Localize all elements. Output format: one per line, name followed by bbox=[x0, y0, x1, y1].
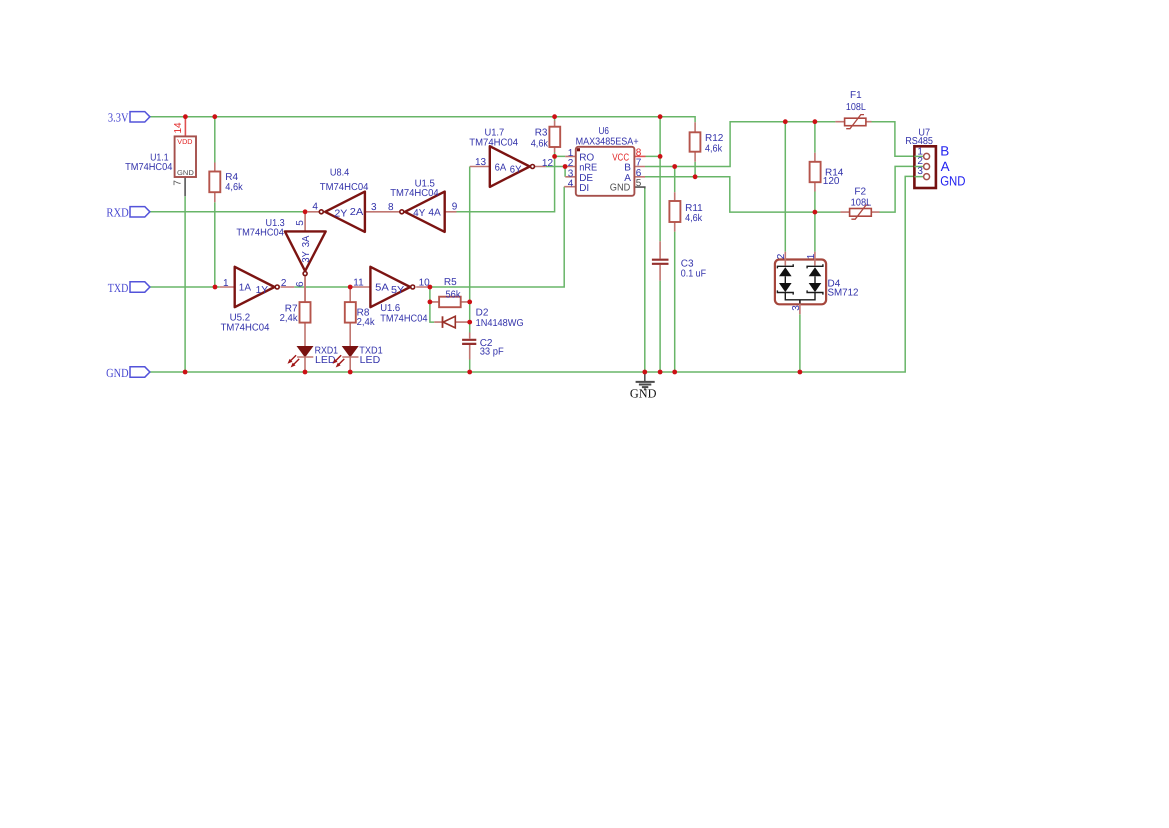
junction A/R14 bottom/D4 pin1 bbox=[813, 210, 818, 215]
wire D4 pin2 column bbox=[784, 122, 786, 252]
LED RXD1 bbox=[288, 346, 339, 372]
svg-text:4,6k: 4,6k bbox=[225, 182, 243, 193]
svg-text:13: 13 bbox=[475, 157, 487, 168]
svg-text:2,4k: 2,4k bbox=[280, 313, 299, 324]
svg-text:LED: LED bbox=[360, 355, 381, 366]
svg-text:5A: 5A bbox=[375, 283, 389, 294]
svg-text:F1: F1 bbox=[850, 90, 862, 101]
svg-text:7: 7 bbox=[173, 180, 184, 186]
svg-text:R3: R3 bbox=[535, 128, 548, 139]
junction GND/C2 bbox=[467, 370, 472, 375]
TVS diode array D4 SM712 bbox=[775, 252, 859, 314]
junction B/D4 pin2 bbox=[783, 119, 788, 124]
junction R5 right/pin13 column bbox=[467, 300, 472, 305]
svg-text:GND: GND bbox=[630, 387, 657, 401]
svg-text:56k: 56k bbox=[446, 290, 462, 301]
wire D4 pin1 column bbox=[814, 212, 816, 252]
junction TXD2/R8 bbox=[348, 285, 353, 290]
inverter U1.3 (points down) bbox=[236, 212, 325, 302]
wire R14 column bbox=[814, 122, 816, 212]
svg-text:2A: 2A bbox=[350, 207, 364, 218]
junction B/R11 bbox=[672, 164, 677, 169]
svg-text:LED: LED bbox=[315, 355, 336, 366]
junction 3.3V/U1.1 pin14 bbox=[183, 114, 188, 119]
capacitor C2 bbox=[462, 333, 504, 360]
wire net A: U6 pin6 to F2 to U7 pin2 bbox=[645, 166, 921, 212]
inverter U1.5 (mirrored, output left) bbox=[388, 178, 458, 232]
svg-text:5Y: 5Y bbox=[391, 285, 405, 296]
junction R5 left bbox=[428, 300, 433, 305]
svg-text:D2: D2 bbox=[476, 307, 489, 318]
svg-text:6Y: 6Y bbox=[510, 165, 522, 176]
svg-text:2,4k: 2,4k bbox=[357, 317, 376, 328]
input flag TXD bbox=[108, 281, 150, 295]
svg-text:MAX3485ESA+: MAX3485ESA+ bbox=[576, 137, 639, 148]
inverter U1.6 bbox=[352, 267, 430, 325]
wire RXD rail bbox=[150, 211, 305, 213]
input flag GND bbox=[106, 366, 150, 380]
junction GND/D4 pin3 bbox=[798, 370, 803, 375]
LED TXD1 bbox=[333, 346, 384, 372]
wire 3.3V rail bbox=[150, 117, 695, 123]
svg-text:9: 9 bbox=[452, 202, 458, 213]
wire net B: U6 pin7 to F1 to U7 pin1 bbox=[645, 122, 921, 167]
svg-text:4: 4 bbox=[568, 178, 574, 189]
svg-text:1: 1 bbox=[806, 253, 817, 259]
resistor R7 bbox=[280, 277, 311, 346]
fuse F1 108L bbox=[835, 90, 871, 129]
svg-text:TM74HC04: TM74HC04 bbox=[236, 228, 284, 239]
svg-text:4A: 4A bbox=[428, 208, 441, 219]
wire R5/D2 node down to C2 bbox=[469, 302, 471, 372]
wire GND rail to U7 pin3 bbox=[150, 176, 921, 372]
resistor R12 bbox=[690, 122, 724, 162]
ground symbol GND bbox=[630, 372, 657, 401]
junction GND/R11 bbox=[672, 370, 677, 375]
svg-text:R12: R12 bbox=[705, 133, 724, 144]
svg-text:5: 5 bbox=[295, 220, 306, 226]
inverter U1.7 bbox=[469, 128, 553, 187]
svg-text:12: 12 bbox=[542, 158, 554, 169]
svg-text:2: 2 bbox=[281, 278, 287, 289]
svg-text:3A: 3A bbox=[301, 235, 312, 247]
svg-text:4Y: 4Y bbox=[413, 208, 425, 219]
junction D2 anode/C2 bbox=[467, 320, 472, 325]
junction GND/RXD1 LED bbox=[303, 370, 308, 375]
svg-text:3: 3 bbox=[917, 166, 923, 177]
junction U1.6 out/DI/R5 bbox=[428, 285, 433, 290]
svg-text:F2: F2 bbox=[854, 186, 866, 197]
svg-text:3.3V: 3.3V bbox=[108, 110, 129, 124]
inverter U5.2 bbox=[220, 267, 294, 334]
svg-text:120: 120 bbox=[823, 176, 840, 187]
svg-text:DI: DI bbox=[579, 183, 589, 194]
power flag 3.3V bbox=[108, 110, 150, 124]
junction 3.3V/R3 bbox=[552, 114, 557, 119]
svg-text:5: 5 bbox=[636, 178, 642, 189]
junction GND/U1.1 pin7 bbox=[183, 370, 188, 375]
junction GND/U6 pin5 bbox=[642, 370, 647, 375]
resistor R4 bbox=[209, 163, 243, 203]
svg-text:3: 3 bbox=[791, 305, 802, 311]
wire U1.7 output to nRE junction, tie to DE bbox=[546, 167, 565, 177]
resistor R8 bbox=[345, 287, 376, 347]
junction GND/TXD1 LED bbox=[348, 370, 353, 375]
svg-text:14: 14 bbox=[173, 122, 184, 134]
input flag RXD bbox=[106, 206, 149, 220]
wire U5.2 output to U1.6 input bbox=[294, 286, 352, 288]
svg-text:B: B bbox=[940, 143, 949, 158]
svg-text:RS485: RS485 bbox=[905, 136, 933, 147]
resistor R3 bbox=[531, 121, 561, 153]
svg-text:TXD: TXD bbox=[108, 281, 129, 295]
resistor R14 bbox=[810, 153, 844, 192]
svg-text:TM74HC04: TM74HC04 bbox=[469, 138, 518, 149]
wire pin10 node down to R5 left and D2 cathode corner bbox=[430, 287, 434, 322]
wire R3 column bbox=[554, 117, 556, 157]
svg-text:TM74HC04: TM74HC04 bbox=[390, 188, 439, 199]
svg-text:1Y: 1Y bbox=[256, 285, 269, 296]
svg-text:0.1 uF: 0.1 uF bbox=[681, 268, 706, 279]
svg-text:4: 4 bbox=[312, 202, 318, 213]
IC U6 MAX3485ESA+ bbox=[564, 126, 645, 372]
fuse F2 108L bbox=[840, 186, 879, 219]
svg-text:TM74HC04: TM74HC04 bbox=[320, 182, 369, 193]
inverter U8.4 (mirrored, output left) bbox=[308, 168, 400, 232]
svg-text:1: 1 bbox=[223, 278, 229, 289]
svg-text:3: 3 bbox=[371, 202, 377, 213]
svg-text:TM74HC04: TM74HC04 bbox=[380, 313, 428, 324]
junction 3.3V/VCC column bbox=[658, 114, 663, 119]
svg-text:1A: 1A bbox=[239, 282, 252, 293]
svg-text:33 pF: 33 pF bbox=[480, 347, 504, 358]
svg-text:2Y: 2Y bbox=[334, 209, 347, 220]
junction RXD/U8.4 out/U1.3 in bbox=[303, 209, 308, 214]
svg-text:6A: 6A bbox=[495, 163, 507, 174]
svg-text:A: A bbox=[941, 159, 950, 174]
wire R4 column (3.3V to R4, R4 to TXD) bbox=[214, 117, 216, 287]
wire VCC node: pin8 link and 3.3V to C3 to GND column bbox=[646, 117, 661, 372]
svg-text:3Y: 3Y bbox=[301, 251, 312, 263]
wire U1.6 output to DI line up to U6 pin4 bbox=[430, 187, 564, 287]
svg-text:108L: 108L bbox=[846, 102, 866, 113]
svg-text:R5: R5 bbox=[444, 277, 457, 288]
svg-text:2: 2 bbox=[776, 253, 787, 259]
wire D4 pin3 to GND rail bbox=[799, 314, 801, 372]
svg-text:TM74HC04: TM74HC04 bbox=[221, 323, 270, 334]
wire U1.5 pin9 to R3 bottom to U6 RO bbox=[456, 156, 565, 211]
junction GND/C3 bbox=[658, 370, 663, 375]
junction TXD/R4 bbox=[213, 285, 218, 290]
svg-text:8: 8 bbox=[388, 202, 394, 213]
connector U7 RS485 bbox=[905, 128, 936, 188]
svg-text:GND: GND bbox=[177, 170, 194, 177]
svg-text:TM74HC04: TM74HC04 bbox=[125, 162, 173, 173]
svg-text:U8.4: U8.4 bbox=[330, 168, 350, 179]
wire TXD rail bbox=[150, 286, 220, 288]
svg-text:RXD: RXD bbox=[106, 206, 128, 220]
svg-text:4,6k: 4,6k bbox=[531, 139, 549, 150]
power unit U1.1 TM74HC04 VDD/GND bbox=[125, 117, 196, 196]
svg-text:GND: GND bbox=[106, 366, 129, 380]
svg-text:1N4148WG: 1N4148WG bbox=[476, 318, 524, 329]
svg-text:VDD: VDD bbox=[177, 139, 192, 146]
wire R11 column bbox=[674, 167, 676, 373]
svg-text:108L: 108L bbox=[851, 197, 872, 208]
resistor R11 bbox=[669, 192, 703, 231]
svg-text:11: 11 bbox=[353, 278, 364, 289]
junction nRE/DE tie bbox=[563, 164, 568, 169]
junction B/R14 top bbox=[813, 119, 818, 124]
svg-text:GND: GND bbox=[610, 182, 631, 193]
junction 3.3V/R4 bbox=[212, 114, 217, 119]
svg-text:SM712: SM712 bbox=[828, 287, 859, 298]
diode D2 1N4148WG bbox=[434, 307, 524, 329]
wire U1.1 GND pin down to GND rail bbox=[184, 196, 186, 372]
wire U1.7 pin13 column down to R5/D2 node bbox=[469, 167, 471, 302]
resistor R5 bbox=[430, 277, 470, 307]
svg-text:4,6k: 4,6k bbox=[705, 144, 723, 155]
junction R3/RO bbox=[552, 154, 557, 159]
wire R12 bottom to net A bbox=[694, 162, 696, 177]
junction A/R12 bbox=[693, 174, 698, 179]
svg-text:4,6k: 4,6k bbox=[685, 213, 703, 224]
capacitor C3 bbox=[652, 241, 706, 280]
junction VCC pin8 bbox=[658, 154, 663, 159]
svg-text:GND: GND bbox=[940, 173, 966, 188]
